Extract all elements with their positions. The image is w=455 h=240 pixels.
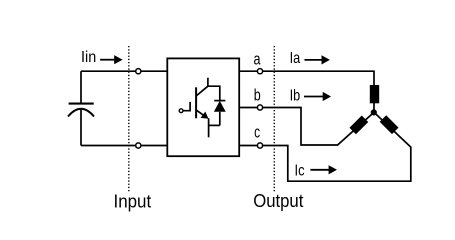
current arrow Iin bbox=[100, 55, 337, 174]
IGBT collector stub and top rail bbox=[208, 78, 220, 101]
IGBT Q1 with freewheeling diode bbox=[179, 78, 225, 138]
IGBT gate terminal circle bbox=[179, 109, 183, 113]
IGBT bottom rail bbox=[209, 124, 220, 126]
output boundary dotted line bbox=[273, 46, 275, 191]
node input+ open circle bbox=[136, 69, 141, 74]
svg-text:Ic: Ic bbox=[295, 162, 305, 179]
diode D1 cathode bar bbox=[214, 100, 225, 102]
svg-text:c: c bbox=[254, 122, 260, 141]
wire phase a bbox=[239, 71, 374, 112]
svg-text:a: a bbox=[254, 49, 261, 68]
load impedance Zc bbox=[380, 115, 399, 134]
IGBT emitter arrowhead bbox=[201, 112, 209, 119]
IGBT main bar bbox=[195, 87, 197, 118]
input boundary dotted line bbox=[128, 46, 130, 191]
wire bottom-left DC bus bbox=[81, 145, 167, 147]
inverter box U1 bbox=[167, 58, 239, 156]
current arrow Ic bbox=[310, 169, 329, 171]
wire capacitor branch vertical top bbox=[80, 71, 82, 103]
svg-text:Input: Input bbox=[114, 190, 152, 211]
wire capacitor branch vertical bottom bbox=[80, 109, 82, 146]
IGBT emitter vertical and bottom stub bbox=[208, 118, 210, 137]
svg-text:Iin: Iin bbox=[81, 49, 96, 66]
node a open circle bbox=[257, 69, 262, 74]
diode D1 anode lead bbox=[219, 112, 221, 126]
IGBT gate lead bbox=[183, 102, 190, 111]
current arrow Ia bbox=[305, 59, 323, 61]
capacitor C1 curved plate bbox=[68, 109, 94, 117]
svg-text:Output: Output bbox=[253, 190, 303, 211]
load impedance Zb bbox=[349, 115, 368, 134]
current arrow Ib bbox=[304, 96, 323, 98]
svg-text:b: b bbox=[254, 85, 261, 104]
node c open circle bbox=[257, 143, 262, 148]
star point junction dot bbox=[371, 109, 377, 115]
load impedance Za bbox=[349, 85, 398, 134]
capacitor C1 flat plate bbox=[69, 103, 94, 105]
wire phase b bbox=[239, 108, 374, 146]
wire top-left DC bus bbox=[81, 70, 167, 72]
svg-text:Ib: Ib bbox=[290, 87, 301, 104]
wire phase c bbox=[239, 112, 411, 181]
diode D1 triangle bbox=[214, 101, 226, 112]
IGBT collector diagonal bbox=[196, 86, 208, 96]
node input- open circle bbox=[136, 143, 141, 148]
node b open circle bbox=[257, 105, 262, 110]
IGBT emitter diagonal bbox=[196, 110, 205, 117]
svg-text:Ia: Ia bbox=[290, 50, 301, 67]
